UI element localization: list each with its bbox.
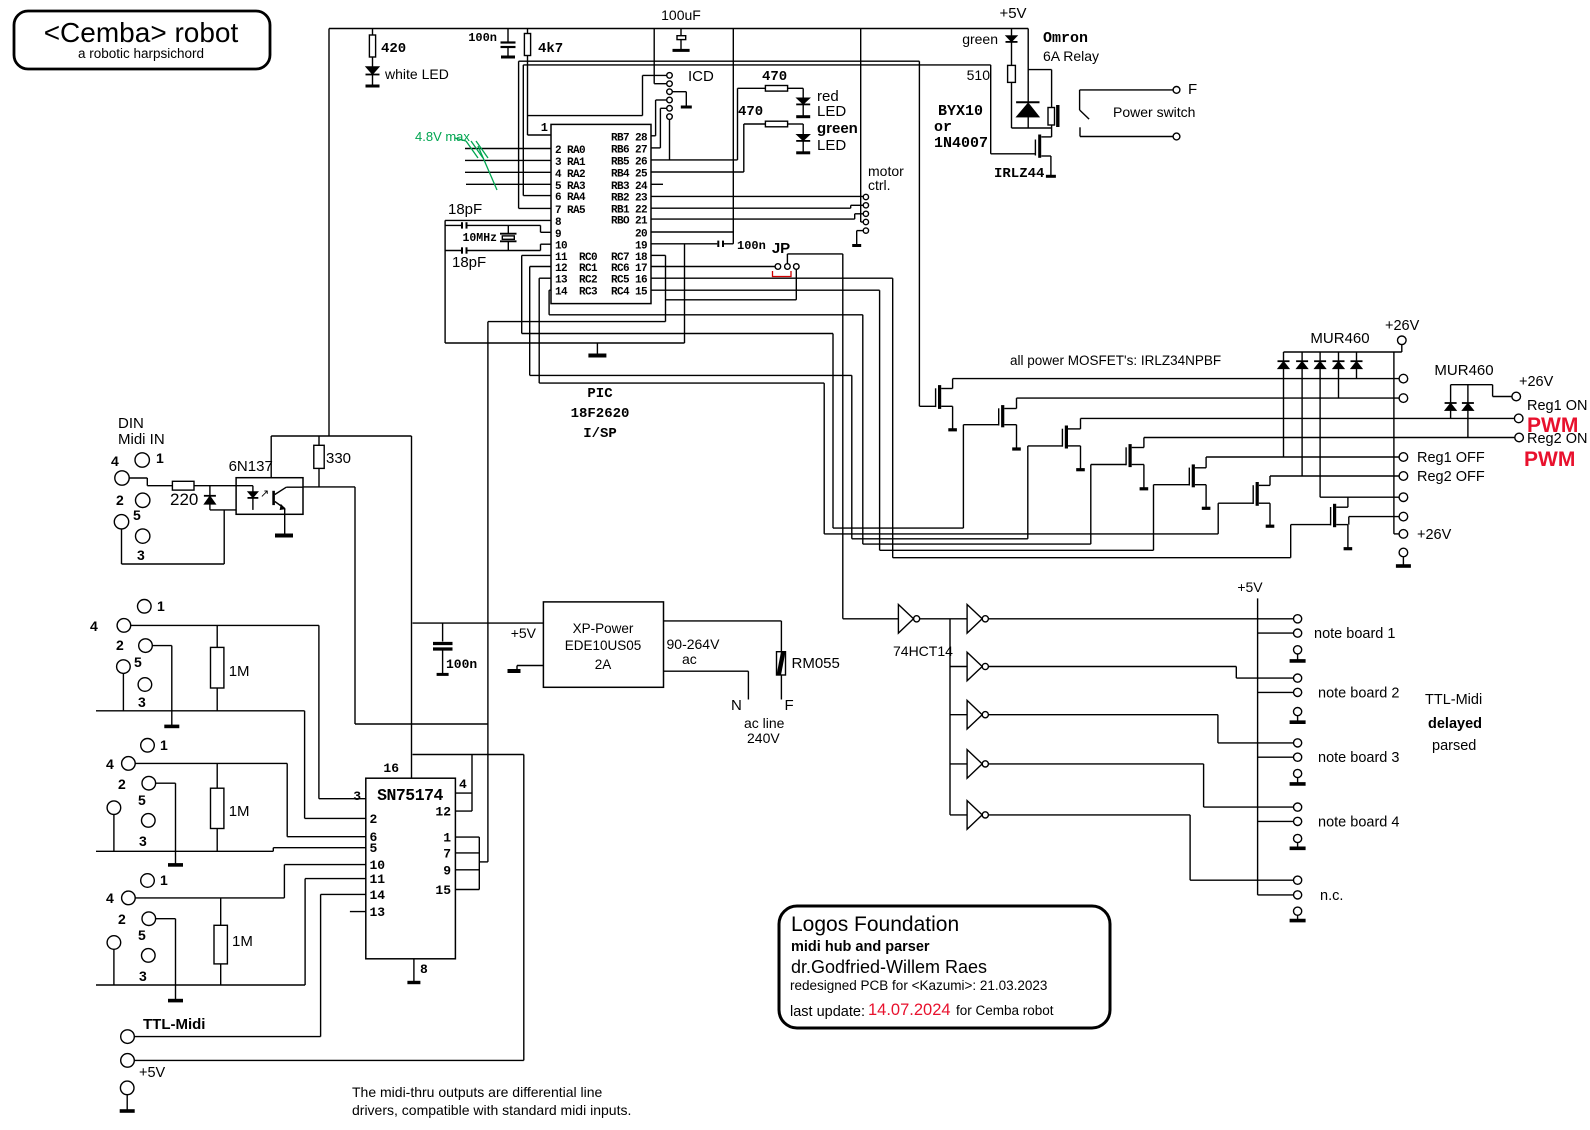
wire gate bus m2 (833, 527, 963, 529)
svg-text:+26V: +26V (1417, 527, 1452, 543)
connector Reg2 ON PWM (1515, 431, 1588, 471)
wire Q3 gate (1027, 446, 1029, 539)
svg-text:100n: 100n (468, 31, 497, 45)
svg-text:dr.Godfried-Willem Raes: dr.Godfried-Willem Raes (791, 957, 987, 977)
label pin3 (353, 789, 361, 804)
transistor Q5 (1154, 457, 1211, 508)
Vss ground bus (445, 244, 684, 343)
svg-text:16: 16 (383, 761, 399, 776)
label Power switch (1113, 104, 1195, 120)
label white LED (384, 66, 449, 82)
svg-text:F: F (785, 697, 794, 714)
svg-text:1: 1 (157, 598, 165, 614)
svg-text:4: 4 (90, 618, 98, 634)
svg-text:N: N (731, 697, 742, 714)
label green LED (817, 120, 858, 154)
svg-text:330: 330 (326, 450, 351, 467)
wire RA2 (465, 171, 551, 173)
svg-text:RC5 16: RC5 16 (611, 275, 647, 287)
label +5V (XP) (511, 625, 537, 641)
wire Q7 source to out (1349, 517, 1399, 525)
svg-text:XP-Power: XP-Power (573, 621, 634, 636)
connector DIN out2 (106, 737, 168, 849)
transistor Q4 (1091, 438, 1148, 489)
wire pin13 stub (350, 911, 366, 913)
wire RC4 (651, 290, 880, 550)
svg-text:2: 2 (118, 776, 126, 792)
svg-text:3: 3 (139, 833, 147, 849)
label +26V (top) (1385, 318, 1420, 334)
inverter U1D (950, 700, 988, 729)
svg-text:14 RC3: 14 RC3 (555, 287, 598, 299)
wire RX link (488, 322, 666, 862)
wire Q4 drain line (Reg2 ON) (1144, 437, 1515, 439)
svg-text:+5V: +5V (511, 625, 537, 641)
svg-text:note board 3: note board 3 (1318, 750, 1399, 766)
wire Q2 drain line (1017, 397, 1400, 399)
connector DIN out1 (90, 598, 165, 710)
ground (PIC Vss) (588, 343, 606, 356)
svg-text:white LED: white LED (384, 66, 449, 82)
svg-text:last update:: last update: (790, 1004, 865, 1020)
wire pins 1/7/9/15 (455, 837, 488, 889)
svg-text:4: 4 (106, 890, 114, 906)
svg-text:9: 9 (555, 229, 561, 241)
svg-text:MUR460: MUR460 (1434, 362, 1493, 379)
svg-text:2 RA0: 2 RA0 (555, 145, 585, 157)
info box Logos Foundation (779, 906, 1110, 1028)
label +5V top (999, 5, 1026, 22)
resistor 220 (170, 481, 236, 509)
wire +5V from bottom (523, 755, 525, 1061)
svg-text:DIN: DIN (118, 415, 144, 432)
svg-text:13: 13 (370, 905, 386, 920)
wire to n.c. (988, 815, 1293, 880)
wire gate bus m6 (824, 533, 1218, 535)
wire +5V rail (1257, 598, 1259, 895)
wire Q6 gate (1217, 503, 1219, 534)
connector out7 (1399, 512, 1408, 521)
svg-text:9: 9 (443, 863, 451, 878)
label red LED (817, 88, 846, 120)
wire +5V to SN75174 (411, 436, 413, 779)
svg-text:LED: LED (817, 103, 846, 120)
wire pins 4+12 enable (455, 755, 472, 812)
green LED (796, 124, 810, 153)
svg-text:green: green (817, 120, 858, 137)
inverter U1A (843, 605, 950, 634)
wire out2 ret (96, 783, 366, 851)
ICD ground (672, 92, 692, 107)
svg-text:The midi-thru outputs are diff: The midi-thru outputs are differential l… (352, 1084, 603, 1100)
svg-text:for Cemba robot: for Cemba robot (956, 1003, 1054, 1018)
svg-text:+26V: +26V (1385, 318, 1420, 334)
transistor IRLZ44 (1035, 128, 1056, 176)
resistor 1M (1) (211, 625, 250, 710)
svg-text:RB7 28: RB7 28 (611, 132, 648, 144)
wire RB4 to 470 (651, 124, 744, 172)
svg-text:Midi IN: Midi IN (118, 431, 165, 448)
inverter input bus (949, 619, 951, 815)
wire gate bus m4 (863, 543, 1091, 545)
svg-text:delayed: delayed (1428, 716, 1482, 732)
wire RC7 net (651, 255, 796, 321)
wire DIN shield (122, 510, 237, 564)
wire RA0 (465, 148, 551, 150)
wire Q5 drain line (Reg1 OFF) (1206, 456, 1399, 458)
connector motor ctrl (863, 194, 868, 233)
svg-text:5 RA3: 5 RA3 (555, 181, 586, 193)
left +5V rail wire (328, 29, 330, 437)
ground (out3) (168, 985, 183, 1001)
svg-text:+5V: +5V (1237, 579, 1263, 595)
label I/SP (583, 426, 617, 442)
svg-text:510: 510 (967, 67, 991, 83)
svg-text:PIC: PIC (587, 386, 613, 402)
connector out2 (1399, 374, 1408, 383)
svg-text:18F2620: 18F2620 (571, 406, 630, 422)
svg-text:+5V: +5V (999, 5, 1026, 22)
wire motor ctrl +5V (861, 29, 864, 223)
connector Reg2 OFF (1399, 469, 1485, 485)
svg-text:note board 2: note board 2 (1318, 685, 1399, 701)
connector note board 2 (1258, 674, 1400, 722)
svg-text:12 RC1: 12 RC1 (555, 263, 598, 275)
wire ICD4 to RB7 (651, 100, 667, 136)
label MUR460 (1310, 330, 1369, 347)
connector +26V right (1512, 392, 1521, 401)
svg-text:Reg1 ON: Reg1 ON (1527, 398, 1587, 414)
optocoupler 6N137 box (229, 458, 303, 514)
inverter U1E (950, 750, 988, 779)
svg-text:7 RA5: 7 RA5 (555, 205, 586, 217)
svg-text:6A Relay: 6A Relay (1043, 48, 1099, 64)
wire out2 hot (135, 763, 366, 836)
+26V rail (diodes) (1284, 351, 1402, 353)
svg-text:Reg1 OFF: Reg1 OFF (1417, 450, 1485, 466)
svg-text:2: 2 (116, 492, 124, 508)
wire JP middle to 74HCT14 (787, 254, 842, 619)
wire ICD1 stub (643, 74, 667, 76)
svg-text:14: 14 (370, 888, 386, 903)
svg-text:RB3 24: RB3 24 (611, 181, 648, 193)
svg-text:a robotic harpsichord: a robotic harpsichord (78, 46, 204, 61)
wire RB2 to motor1 (651, 195, 863, 197)
label 18F2620 (571, 406, 630, 422)
svg-text:74HCT14: 74HCT14 (893, 643, 953, 659)
resistor 330 (314, 436, 351, 487)
svg-text:note board 4: note board 4 (1318, 814, 1399, 830)
power supply XP-Power box (543, 602, 663, 687)
wire +5V to XP (413, 622, 544, 624)
connector note board 3 (1258, 739, 1400, 784)
wire Q5 gate (1153, 485, 1155, 551)
wire RA5 pin (519, 207, 551, 209)
svg-text:7: 7 (443, 846, 451, 861)
svg-text:BYX10: BYX10 (938, 103, 983, 120)
svg-text:Omron: Omron (1043, 30, 1088, 47)
svg-text:RM055: RM055 (792, 655, 840, 672)
label parsed (1432, 738, 1476, 754)
capacitor 100n (MCLR) (468, 29, 515, 58)
wire TTL-Midi (134, 894, 365, 1036)
motor ctrl ground (852, 231, 863, 246)
diode D5 MUR460 (1351, 352, 1363, 379)
svg-text:note board 1: note board 1 (1314, 626, 1395, 642)
svg-text:1N4007: 1N4007 (934, 135, 988, 152)
wire RA4 line (523, 65, 990, 196)
connector note board 1 (1258, 615, 1396, 661)
svg-text:green: green (962, 31, 998, 47)
transistor Q6 (1218, 476, 1274, 526)
label MUR460 (right) (1434, 362, 1493, 379)
svg-text:5: 5 (133, 507, 141, 523)
diode BYX10 (1016, 29, 1039, 129)
svg-text:3: 3 (353, 789, 361, 804)
svg-text:100n: 100n (446, 657, 477, 672)
svg-text:4: 4 (459, 777, 467, 792)
svg-text:RB2 23: RB2 23 (611, 193, 648, 205)
svg-text:18pF: 18pF (448, 201, 482, 218)
wire pin8 gnd (407, 959, 428, 983)
capacitor 100n (5V) (433, 623, 477, 674)
connector note board 4 (1258, 803, 1400, 848)
svg-text:10: 10 (370, 858, 386, 873)
resistor 470 (red) (738, 69, 804, 91)
wire 4k7 to pin1 (528, 56, 552, 136)
label motor ctrl (868, 163, 904, 193)
wire Q1 gate (918, 61, 920, 406)
svg-text:20: 20 (635, 229, 647, 241)
wire +5V in (134, 1059, 524, 1061)
svg-text:ac line: ac line (744, 715, 785, 731)
wire gate bus m7 (893, 557, 1291, 559)
capacitor 100uF (661, 7, 701, 50)
wire 510 bottom (1011, 82, 1013, 128)
power switch (1080, 87, 1180, 140)
svg-text:6N137: 6N137 (229, 458, 273, 475)
svg-text:2A: 2A (595, 657, 612, 672)
wire relay bottom (1012, 127, 1052, 129)
wire pin8 Vss (445, 219, 551, 221)
bracket MUR460 (1451, 385, 1512, 397)
wire RC6 to JP (651, 266, 775, 268)
svg-text:1: 1 (160, 872, 168, 888)
diode D2 MUR460 (1296, 352, 1308, 476)
svg-text:↗: ↗ (260, 488, 269, 500)
label IRLZ44 (994, 166, 1044, 182)
transistor Q2 (963, 398, 1020, 449)
wire ICD6 to RB5 (669, 119, 671, 159)
svg-text:I/SP: I/SP (583, 426, 617, 442)
svg-text:100n: 100n (737, 239, 766, 253)
label ac line 240V (744, 715, 785, 746)
wire fuse to F (781, 675, 793, 714)
svg-text:Reg2 OFF: Reg2 OFF (1417, 469, 1485, 485)
svg-text:3: 3 (139, 968, 147, 984)
label 74HCT14 (893, 643, 953, 659)
wire Q4 gate (1090, 465, 1092, 545)
svg-text:redesigned PCB for <Kazumi>: 2: redesigned PCB for <Kazumi>: 21.03.2023 (790, 978, 1047, 993)
wire out3 hot (135, 865, 366, 898)
wire Q6 drain line (Reg2 OFF) (1270, 475, 1399, 477)
SN75174 pin numbers (370, 777, 468, 920)
svg-text:4: 4 (111, 453, 119, 469)
connector Reg1 OFF (1399, 450, 1485, 466)
svg-text:8: 8 (555, 217, 562, 229)
connector TTL-Midi (121, 1030, 135, 1044)
transistor Q3 (1028, 418, 1085, 469)
svg-text:Logos Foundation: Logos Foundation (791, 913, 959, 936)
wire RC1 wrap (530, 267, 852, 539)
wire opto Vcc (270, 436, 272, 478)
label Omron (1043, 30, 1088, 47)
svg-text:5: 5 (134, 654, 142, 670)
ground (6N137) (275, 534, 293, 538)
label BYX10 (934, 103, 988, 152)
svg-text:4: 4 (106, 756, 114, 772)
wire RC2 wrap (539, 278, 824, 534)
wire ICD5 to RB6 (651, 108, 667, 148)
svg-text:10: 10 (555, 241, 567, 253)
svg-text:RB6 27: RB6 27 (611, 144, 647, 156)
diode midi in (204, 486, 216, 510)
svg-text:1M: 1M (232, 933, 253, 950)
connector DIN out3 (106, 872, 168, 984)
fuse RM055 (777, 652, 840, 675)
svg-text:11: 11 (370, 872, 386, 887)
connector n.c. (1258, 876, 1344, 920)
wire rail to ICD2 (654, 29, 667, 84)
svg-text:1: 1 (156, 450, 164, 466)
svg-text:TTL-Midi: TTL-Midi (143, 1016, 205, 1033)
svg-text:ICD: ICD (688, 68, 714, 85)
connector out3 (1399, 394, 1408, 403)
label +5V (note boards) (1237, 579, 1263, 595)
wire RC5 (651, 278, 893, 558)
svg-text:parsed: parsed (1432, 738, 1476, 754)
+5V top rail (329, 28, 1028, 30)
PIC pin labels (555, 132, 648, 298)
wire gate bus m5 (880, 549, 1154, 551)
diode D7 MUR460 (1462, 385, 1474, 438)
wire Q3 drain line (Reg1 ON) (1081, 417, 1515, 419)
svg-text:4k7: 4k7 (538, 41, 563, 57)
connector +26V mid (1394, 527, 1452, 543)
wire Vss vertical (444, 220, 446, 343)
resistor 510 (967, 65, 1016, 83)
label pin1 (541, 121, 548, 135)
svg-text:RB4 25: RB4 25 (611, 169, 648, 181)
capacitor 18pF top (445, 201, 551, 232)
svg-text:15: 15 (435, 883, 451, 898)
diode D1 MUR460 (1278, 352, 1290, 457)
svg-text:100uF: 100uF (661, 7, 701, 23)
svg-text:RC4 15: RC4 15 (611, 287, 648, 299)
svg-text:Reg2 ON: Reg2 ON (1527, 431, 1587, 447)
svg-text:LED: LED (817, 137, 846, 154)
svg-text:2: 2 (116, 637, 124, 653)
wire Q2 gate (962, 425, 964, 528)
wire RB5 to 470 (651, 88, 738, 160)
svg-text:470: 470 (738, 104, 763, 120)
svg-text:8: 8 (420, 962, 428, 977)
svg-text:4 RA2: 4 RA2 (555, 169, 585, 181)
wire out3 ret (96, 879, 366, 985)
wire RB3 stub (651, 183, 663, 185)
wire XP N out (664, 671, 749, 714)
svg-text:1M: 1M (229, 803, 250, 820)
svg-text:1M: 1M (229, 663, 250, 680)
svg-text:all power MOSFET's: IRLZ34NPBF: all power MOSFET's: IRLZ34NPBF (1010, 353, 1221, 368)
svg-text:TTL-Midi: TTL-Midi (1425, 692, 1482, 708)
label 16 (383, 761, 399, 776)
inverter U1B (950, 605, 988, 634)
wire +5V row2 (413, 754, 524, 756)
svg-text:12: 12 (435, 805, 451, 820)
note midi-thru (352, 1084, 631, 1118)
svg-text:18pF: 18pF (452, 254, 486, 271)
wire out1 hot (131, 625, 366, 798)
connector JP (772, 240, 799, 277)
svg-text:3 RA1: 3 RA1 (555, 157, 586, 169)
transistor Q1 (919, 379, 957, 430)
svg-text:SN75174: SN75174 (377, 786, 443, 805)
label all power MOSFETs (1010, 353, 1221, 368)
wire to note board 4 (988, 764, 1293, 807)
connector gnd out (1396, 548, 1411, 566)
wire to note board 2 (988, 667, 1293, 679)
label DIN Midi IN (118, 415, 165, 448)
PIC 18F2620 chip body (551, 124, 651, 303)
wire Vdd pin20 (651, 29, 733, 233)
svg-text:+5V: +5V (139, 1065, 166, 1081)
wire opto output (303, 487, 488, 724)
wire DIN4 to 220 (129, 478, 172, 486)
svg-text:240V: 240V (747, 730, 780, 746)
svg-text:RB5 26: RB5 26 (611, 156, 647, 168)
connector gnd in (120, 1081, 135, 1111)
wire RB0 to motor3 (651, 214, 863, 219)
svg-text:1: 1 (541, 121, 548, 135)
wire Q7 gate (1290, 525, 1292, 558)
wire Q7 drain line (1320, 496, 1399, 498)
svg-text:19: 19 (635, 240, 647, 252)
wire RC3 wrap (549, 290, 863, 544)
svg-text:F: F (1188, 81, 1197, 98)
svg-text:3: 3 (137, 547, 145, 563)
title box <Cemba> robot (14, 11, 270, 69)
svg-text:2: 2 (118, 911, 126, 927)
wire to note board 1 (988, 618, 1293, 620)
white LED (366, 57, 380, 86)
wire RA4 pin (523, 195, 551, 197)
wire Q1 drain line (953, 378, 1400, 380)
inverter U1F (950, 801, 988, 830)
green LED (power) (962, 29, 1017, 66)
svg-text:420: 420 (381, 41, 406, 57)
svg-text:IRLZ44: IRLZ44 (994, 166, 1044, 182)
resistor 1M (2) (211, 763, 250, 851)
svg-text:2: 2 (370, 812, 378, 827)
svg-text:ctrl.: ctrl. (868, 177, 891, 193)
label PIC (587, 386, 613, 402)
svg-text:PWM: PWM (1524, 448, 1575, 471)
resistor 1M (3) (214, 898, 253, 985)
svg-text:5: 5 (370, 841, 378, 856)
red LED (796, 88, 810, 116)
label delayed (1428, 716, 1482, 732)
